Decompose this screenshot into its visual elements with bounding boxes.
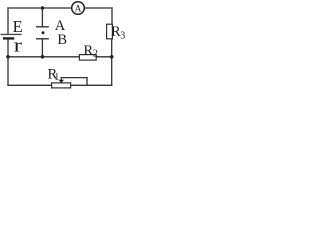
svg-text:r: r [14,34,23,56]
svg-text:3: 3 [120,30,125,41]
svg-text:2: 2 [93,49,98,60]
svg-text:1: 1 [54,72,59,83]
svg-text:A: A [75,4,82,14]
svg-text:B: B [57,32,67,48]
